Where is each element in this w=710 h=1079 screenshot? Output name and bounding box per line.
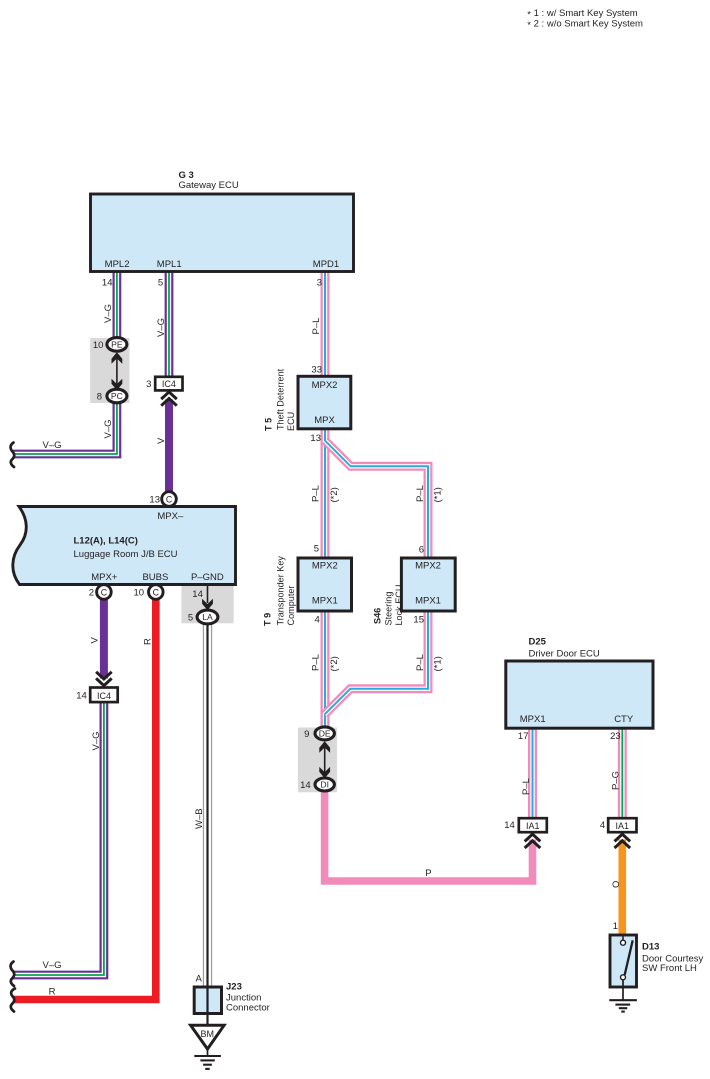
ECU G3 Gateway ECU box bbox=[91, 194, 354, 272]
svg-text:MPX2: MPX2 bbox=[312, 561, 338, 572]
svg-text:P–L: P–L bbox=[311, 318, 322, 335]
svg-text:8: 8 bbox=[97, 392, 102, 403]
svg-text:SW Front LH: SW Front LH bbox=[642, 963, 697, 974]
svg-text:14: 14 bbox=[102, 278, 113, 289]
wire V-G from PC down, corner, left to break bbox=[13, 395, 117, 454]
svg-text:Driver Door ECU: Driver Door ECU bbox=[529, 649, 600, 660]
wire break symbol top left bbox=[11, 443, 15, 468]
connector IC4 pin3 box bbox=[155, 377, 182, 391]
svg-text:PC: PC bbox=[111, 391, 123, 401]
svg-text:V–G: V–G bbox=[103, 419, 114, 438]
svg-text:DI: DI bbox=[320, 780, 329, 790]
BM ground symbol bbox=[207, 1049, 209, 1056]
svg-text:V: V bbox=[156, 437, 167, 444]
svg-text:PE: PE bbox=[111, 340, 123, 350]
D13 switch contacts and blade bbox=[622, 937, 624, 941]
svg-text:IC4: IC4 bbox=[97, 691, 111, 701]
junction C10 circle on L12 BUBS bbox=[149, 585, 164, 600]
wire P thick pink from DI pin14 down, right, up to IA1 pin14 bbox=[325, 790, 533, 881]
svg-text:A: A bbox=[195, 974, 202, 985]
wire W-B from LA pin5 down to J23 bbox=[203, 617, 212, 988]
svg-text:MPX1: MPX1 bbox=[520, 714, 546, 725]
svg-text:MPL1: MPL1 bbox=[157, 259, 182, 270]
svg-text:Connector: Connector bbox=[226, 1003, 270, 1014]
svg-text:33: 33 bbox=[311, 365, 322, 376]
svg-text:Transponder Key: Transponder Key bbox=[276, 556, 286, 626]
wire V thick violet from L12 MPX+ C2 to IC4 pin14 bbox=[100, 592, 108, 679]
svg-text:LA: LA bbox=[202, 612, 213, 622]
svg-text:MPX2: MPX2 bbox=[312, 380, 338, 391]
svg-text:5: 5 bbox=[314, 544, 319, 555]
svg-text:MPX+: MPX+ bbox=[91, 572, 118, 583]
svg-text:W–B: W–B bbox=[194, 808, 205, 829]
ECU L12(A) L14(C) Luggage Room J/B ECU box bbox=[13, 507, 236, 585]
svg-text:14: 14 bbox=[300, 780, 311, 791]
svg-text:MPX: MPX bbox=[314, 415, 335, 426]
svg-text:V–G: V–G bbox=[42, 960, 61, 971]
junction C2 circle on L12 MPX+ bbox=[97, 585, 112, 600]
wire break symbol bottom left V-G bbox=[11, 962, 15, 987]
svg-text:9: 9 bbox=[304, 729, 309, 740]
connector DE pin9 ellipse bbox=[315, 727, 334, 740]
svg-text:P–L: P–L bbox=[311, 485, 322, 502]
svg-text:6: 6 bbox=[419, 545, 424, 556]
IA1 pin14 chevron bbox=[525, 834, 541, 848]
svg-text:CTY: CTY bbox=[614, 714, 634, 725]
connector P-GND pin14/LA gray band bbox=[181, 586, 233, 624]
svg-text:4: 4 bbox=[600, 820, 605, 831]
svg-text:10: 10 bbox=[134, 588, 145, 599]
IA1 pin4 chevron bbox=[615, 834, 631, 848]
connector PC pin8 ellipse bbox=[107, 389, 127, 403]
svg-text:2: 2 bbox=[89, 588, 94, 599]
svg-text:D13: D13 bbox=[642, 942, 659, 953]
ECU D25 Driver Door ECU box bbox=[506, 661, 653, 728]
svg-text:T 9: T 9 bbox=[263, 613, 273, 626]
connector DI pin14 ellipse bbox=[315, 778, 334, 791]
svg-text:3: 3 bbox=[146, 379, 151, 390]
switch D13 Door Courtesy SW Front LH box bbox=[610, 935, 637, 987]
svg-text:ECU: ECU bbox=[286, 412, 296, 431]
wire V-G from IC4 pin14 down, corner, left to break bbox=[13, 702, 104, 975]
svg-text:V–G: V–G bbox=[42, 440, 61, 451]
svg-text:S46: S46 bbox=[373, 608, 383, 624]
svg-text:IA1: IA1 bbox=[616, 821, 630, 831]
svg-text:5: 5 bbox=[158, 278, 163, 289]
svg-text:P–G: P–G bbox=[611, 771, 622, 790]
svg-text:J23: J23 bbox=[226, 982, 242, 993]
svg-text:R: R bbox=[143, 638, 154, 645]
svg-text:10: 10 bbox=[93, 340, 104, 351]
PE-PC double arrow bbox=[116, 358, 118, 384]
connector PE/PC gray band bbox=[90, 338, 129, 403]
svg-text:MPX–: MPX– bbox=[157, 511, 184, 522]
wire V thick violet from IC4 to L12 MPX- C13 bbox=[165, 400, 173, 500]
svg-text:P: P bbox=[425, 868, 431, 879]
svg-text:14: 14 bbox=[504, 820, 515, 831]
svg-text:P–GND: P–GND bbox=[191, 572, 224, 583]
svg-text:DE: DE bbox=[319, 729, 331, 739]
svg-text:MPL2: MPL2 bbox=[105, 259, 130, 270]
svg-text:IA1: IA1 bbox=[526, 821, 540, 831]
svg-text:15: 15 bbox=[413, 615, 424, 626]
ground point BM triangle bbox=[191, 1025, 225, 1049]
svg-text:V–G: V–G bbox=[156, 318, 167, 337]
svg-text:13: 13 bbox=[310, 433, 321, 444]
svg-text:1: 1 bbox=[613, 921, 618, 932]
svg-text:C: C bbox=[101, 587, 108, 597]
connector J23 Junction Connector box bbox=[194, 987, 221, 1014]
wire break symbol bottom left R bbox=[11, 989, 15, 1012]
svg-text:* 2 : w/o Smart Key System: * 2 : w/o Smart Key System bbox=[527, 18, 643, 31]
svg-text:4: 4 bbox=[315, 615, 320, 626]
svg-text:O: O bbox=[611, 881, 622, 888]
svg-text:T 5: T 5 bbox=[264, 418, 274, 431]
svg-text:(*2): (*2) bbox=[329, 656, 340, 671]
svg-text:3: 3 bbox=[317, 278, 322, 289]
svg-text:(*1): (*1) bbox=[433, 487, 444, 502]
svg-text:Luggage Room J/B ECU: Luggage Room J/B ECU bbox=[74, 549, 178, 560]
D13 ground symbol bbox=[622, 980, 624, 1000]
ECU S46 Steering Lock ECU box bbox=[401, 558, 455, 611]
svg-text:IC4: IC4 bbox=[162, 379, 176, 389]
wire V-G from G3 MPL1 pin5 to IC4 bbox=[165, 271, 174, 378]
junction C13 circle on L12 MPX- bbox=[162, 492, 177, 507]
svg-text:MPX1: MPX1 bbox=[312, 596, 338, 607]
IC4 pin3 chevron bbox=[161, 392, 177, 406]
connector DE/DI gray band bbox=[298, 728, 337, 793]
svg-text:Steering: Steering bbox=[384, 592, 394, 626]
svg-text:14: 14 bbox=[192, 589, 203, 600]
wire R thick red from L12 BUBS C10 down, corner, left to break bbox=[13, 592, 156, 1000]
wire P-L branch *1 split diagonal to S46 MPX2 pin6 bbox=[325, 441, 428, 559]
svg-text:BM: BM bbox=[201, 1029, 215, 1039]
wire P-L branch *1 from S46 MPX1 pin15 rejoin to DE bbox=[325, 610, 428, 714]
svg-text:P–L: P–L bbox=[311, 654, 322, 671]
wire P-L from D25 MPX1 pin17 to IA1 bbox=[528, 728, 537, 819]
DE-DI double arrow bbox=[324, 747, 326, 773]
svg-text:P–L: P–L bbox=[415, 654, 426, 671]
connector IA1 pin14 box bbox=[519, 818, 547, 832]
wire P-G from D25 CTY pin23 to IA1 bbox=[618, 728, 627, 819]
svg-text:P–L: P–L bbox=[415, 485, 426, 502]
svg-text:MPX1: MPX1 bbox=[415, 596, 441, 607]
svg-text:Gateway ECU: Gateway ECU bbox=[179, 180, 239, 191]
svg-text:13: 13 bbox=[149, 495, 160, 506]
svg-text:(*2): (*2) bbox=[329, 487, 340, 502]
wire P-L from T5 MPX pin13 down to DE (trunk) bbox=[321, 429, 330, 728]
svg-text:MPD1: MPD1 bbox=[313, 259, 339, 270]
svg-text:(*1): (*1) bbox=[433, 656, 444, 671]
connector IC4 pin14 box bbox=[96, 672, 112, 686]
P-GND pin14 arrow to LA bbox=[207, 585, 209, 604]
svg-text:BUBS: BUBS bbox=[142, 572, 168, 583]
connector LA pin5 ellipse bbox=[197, 610, 218, 624]
svg-text:5: 5 bbox=[188, 613, 193, 624]
wire O thick orange from IA1 pin4 to D13 pin1 bbox=[618, 840, 626, 936]
svg-text:C: C bbox=[166, 494, 173, 504]
wire P-L from G3 MPD1 pin3 to T5 MPX2 pin33 bbox=[321, 271, 330, 377]
connector IA1 pin4 box bbox=[608, 818, 636, 832]
svg-text:P–L: P–L bbox=[521, 778, 532, 795]
svg-text:D25: D25 bbox=[529, 637, 547, 648]
svg-text:Lock ECU: Lock ECU bbox=[394, 585, 404, 626]
ECU T5 Theft Deterrent ECU box bbox=[298, 376, 351, 429]
svg-text:V: V bbox=[90, 637, 101, 644]
svg-text:17: 17 bbox=[518, 731, 529, 742]
svg-text:C: C bbox=[153, 587, 160, 597]
svg-text:Theft Deterrent: Theft Deterrent bbox=[276, 368, 286, 430]
svg-text:V–G: V–G bbox=[103, 304, 114, 323]
ECU T9 Transponder Key Computer box bbox=[298, 558, 352, 611]
connector PE pin10 ellipse bbox=[107, 338, 127, 352]
svg-text:R: R bbox=[49, 987, 56, 998]
svg-text:L12(A), L14(C): L12(A), L14(C) bbox=[74, 536, 138, 547]
wire V-G from G3 MPL2 pin14 to PE bbox=[113, 271, 122, 345]
svg-text:MPX2: MPX2 bbox=[415, 561, 441, 572]
svg-text:14: 14 bbox=[76, 691, 87, 702]
svg-text:V–G: V–G bbox=[91, 731, 102, 750]
wire black through J23 to BM bbox=[206, 988, 208, 1025]
svg-text:23: 23 bbox=[610, 731, 621, 742]
svg-text:Computer: Computer bbox=[286, 586, 296, 626]
